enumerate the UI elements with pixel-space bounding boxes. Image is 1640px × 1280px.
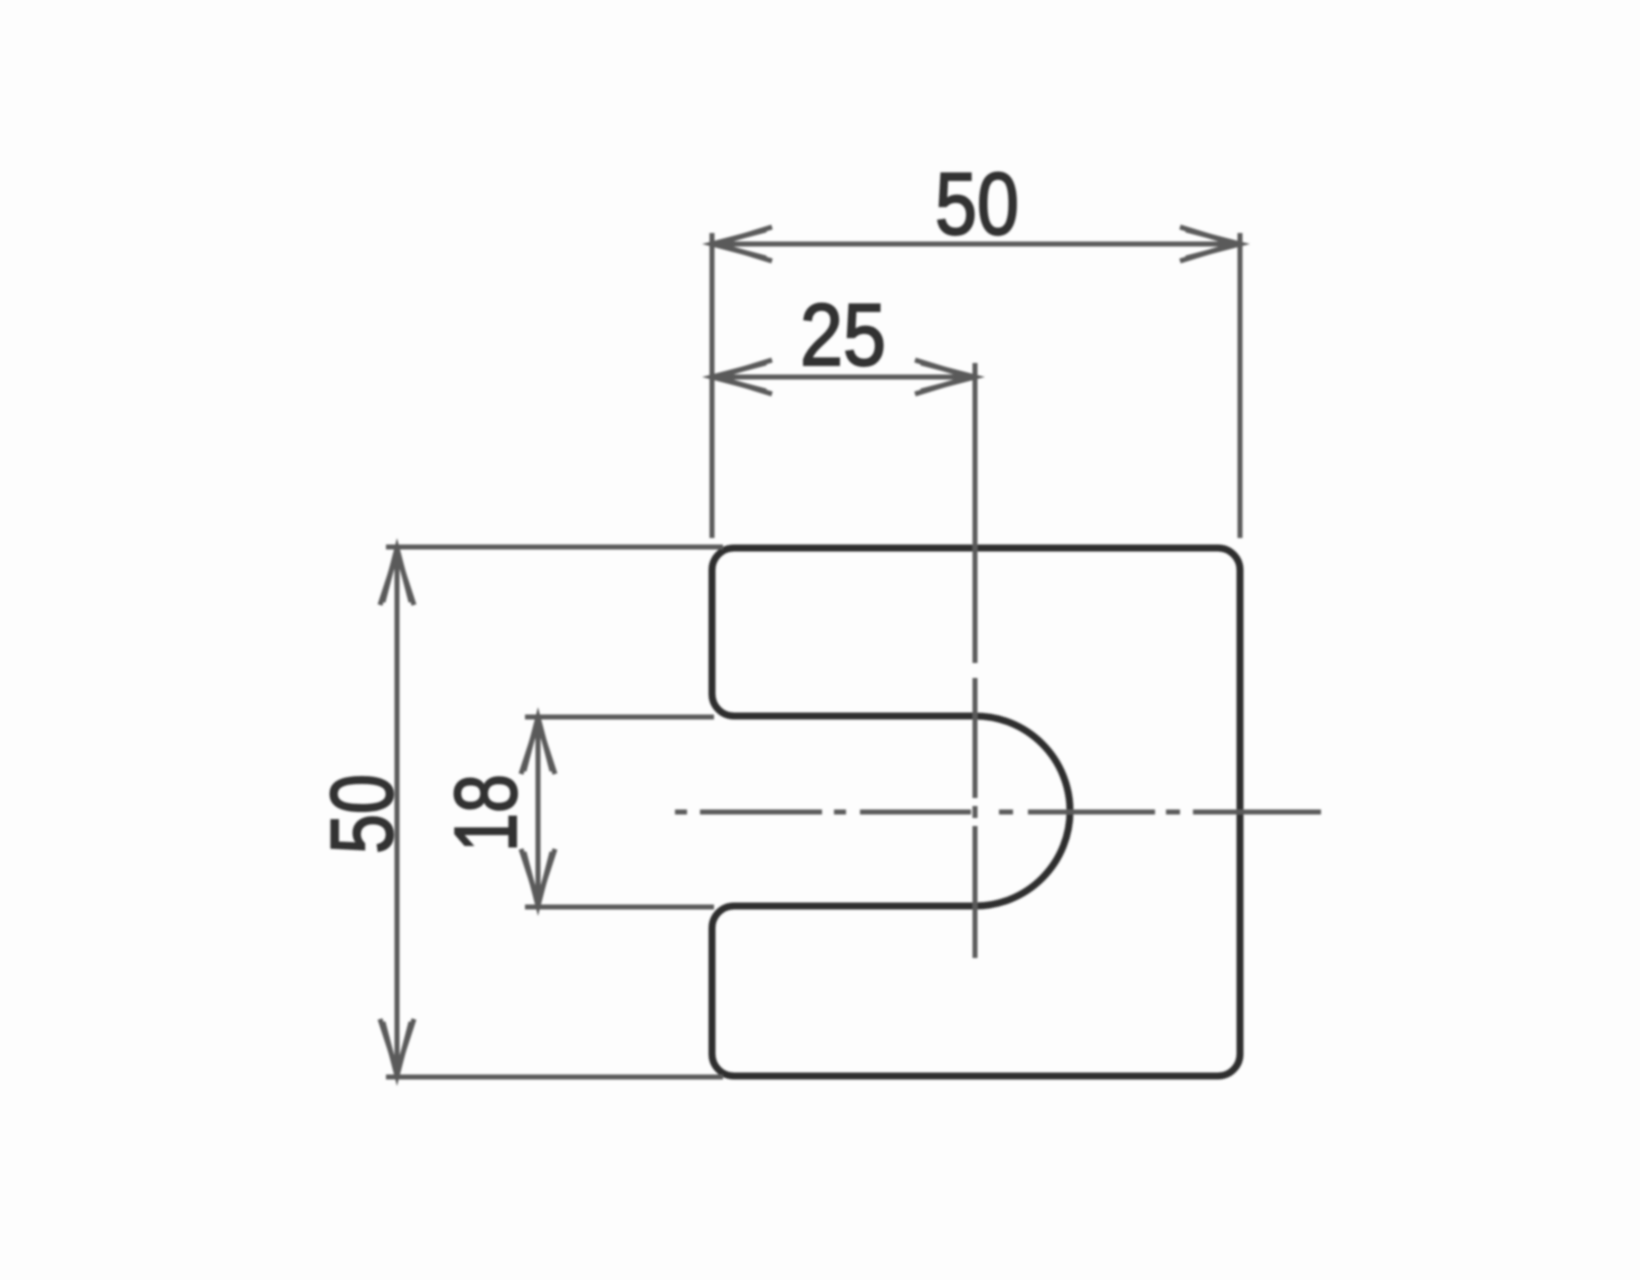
- arrow bottom of 18: [524, 852, 552, 906]
- arrow top of 18: [524, 717, 552, 771]
- arrow top of left 50: [383, 548, 411, 602]
- svg-text:25: 25: [800, 285, 886, 384]
- svg-text:50: 50: [312, 774, 411, 854]
- extension line bottom of left 50 dim: [386, 1075, 723, 1080]
- dimension line 18: [536, 717, 541, 906]
- dimension line 50 top: [712, 242, 1240, 247]
- svg-text:18: 18: [436, 774, 535, 852]
- arrow left of 25: [712, 363, 766, 391]
- arrow right of 25: [921, 363, 975, 391]
- arrow right of top 50: [1186, 230, 1240, 258]
- extension line left of top 50 dim: [710, 233, 715, 538]
- svg-text:50: 50: [935, 154, 1019, 253]
- arrow bottom of left 50: [383, 1022, 411, 1076]
- extension line top of 18 dim: [525, 715, 714, 720]
- extension line right of top 50 dim: [1238, 233, 1243, 538]
- dimension line 25: [712, 375, 975, 380]
- extension line bottom of 18 dim: [525, 905, 714, 910]
- arrow left of top 50: [712, 230, 766, 258]
- extension line top of left 50 dim: [386, 545, 723, 550]
- part outline: 50x50 plate with 18-wide open slot: [712, 548, 1240, 1076]
- dimension line 50 left: [395, 548, 400, 1076]
- extension / center line vertical at slot center: [973, 363, 978, 663]
- centerline horizontal dash-dot: [675, 810, 687, 815]
